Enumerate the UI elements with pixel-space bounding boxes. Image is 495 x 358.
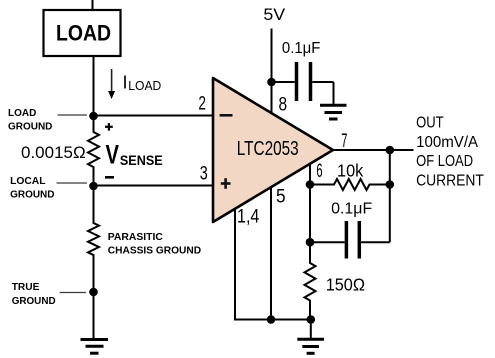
svg-text:8: 8 bbox=[279, 94, 288, 115]
svg-text:6: 6 bbox=[316, 161, 322, 182]
svg-text:V: V bbox=[106, 140, 120, 170]
svg-text:PARASITIC: PARASITIC bbox=[108, 231, 163, 243]
wire: node to op-amp pin 2 bbox=[94, 115, 214, 117]
node: feedback junction right bbox=[386, 180, 395, 189]
label TRUE GROUND bbox=[12, 281, 86, 307]
svg-text:5V: 5V bbox=[263, 5, 285, 24]
node: bypass junction bbox=[267, 78, 276, 87]
current arrow ILOAD bbox=[108, 69, 161, 99]
svg-text:CURRENT: CURRENT bbox=[416, 173, 484, 190]
svg-text:0.1μF: 0.1μF bbox=[331, 201, 372, 218]
svg-text:CHASSIS GROUND: CHASSIS GROUND bbox=[108, 244, 202, 256]
svg-text:0.1μF: 0.1μF bbox=[282, 40, 321, 57]
ground: true ground symbol bbox=[81, 292, 109, 353]
svg-text:LOAD: LOAD bbox=[128, 78, 161, 93]
svg-text:LTC2053: LTC2053 bbox=[237, 138, 299, 160]
node: pin 6 junction bbox=[306, 180, 315, 189]
svg-text:5: 5 bbox=[276, 187, 286, 208]
label LOAD GROUND bbox=[8, 107, 87, 133]
wire: left feedback vertical bbox=[309, 185, 311, 243]
ground: output network ground symbol bbox=[297, 320, 324, 354]
pin 5 wire bbox=[270, 188, 272, 320]
wire: 5V to pin 8 bbox=[271, 29, 273, 115]
svg-text:3: 3 bbox=[200, 164, 208, 185]
svg-text:I: I bbox=[123, 72, 128, 92]
capacitor C1 0.1µF (bypass) bbox=[272, 40, 334, 104]
resistor: parasitic chassis ground bbox=[88, 186, 201, 292]
node: local ground bbox=[89, 182, 98, 191]
minus sign (Vsense −) bbox=[105, 176, 114, 179]
wire: output junction down to feedback bbox=[389, 150, 391, 185]
wire: node to op-amp pin 3 bbox=[94, 185, 214, 187]
resistor RSENSE 0.0015Ω bbox=[21, 116, 99, 186]
label VSENSE bbox=[106, 140, 163, 170]
svg-text:2: 2 bbox=[198, 94, 206, 115]
svg-text:SENSE: SENSE bbox=[120, 152, 163, 168]
svg-text:LOAD: LOAD bbox=[8, 107, 37, 119]
svg-text:OF LOAD: OF LOAD bbox=[416, 153, 473, 170]
svg-text:OUT: OUT bbox=[416, 115, 444, 132]
svg-text:150Ω: 150Ω bbox=[326, 275, 365, 295]
svg-text:LOCAL: LOCAL bbox=[10, 175, 46, 187]
svg-text:10k: 10k bbox=[337, 161, 364, 181]
pin 7 wire (output) bbox=[331, 149, 414, 151]
resistor R1 10k bbox=[310, 161, 390, 191]
resistor R2 150Ω bbox=[305, 242, 366, 319]
label OUT 100mV/A OF LOAD CURRENT bbox=[416, 115, 484, 190]
LOAD box bbox=[44, 10, 121, 56]
svg-text:TRUE: TRUE bbox=[12, 281, 40, 293]
wire: load box to load ground node bbox=[93, 56, 95, 116]
node: output junction bbox=[386, 146, 395, 155]
plus sign (Vsense +) bbox=[105, 123, 113, 131]
capacitor C2 0.1µF (feedback) bbox=[310, 201, 390, 259]
pin 1,4 wire bbox=[235, 209, 311, 320]
svg-text:GROUND: GROUND bbox=[10, 188, 55, 200]
node: cap junction left bbox=[306, 238, 315, 247]
ground: bypass ground symbol bbox=[320, 105, 347, 119]
wire: right feedback vertical bbox=[389, 185, 391, 243]
wire: stub above load box bbox=[92, 0, 94, 11]
svg-text:100mV/A: 100mV/A bbox=[416, 134, 478, 151]
svg-text:1,4: 1,4 bbox=[237, 207, 260, 228]
node: true ground bbox=[89, 288, 98, 297]
node: pin 5 junction bbox=[267, 315, 276, 324]
op-amp U1 LTC2053 bbox=[213, 78, 333, 222]
pin 6 wire bbox=[309, 164, 311, 185]
svg-text:GROUND: GROUND bbox=[12, 295, 56, 307]
node: ground junction bbox=[307, 315, 316, 324]
svg-text:7: 7 bbox=[341, 131, 347, 152]
svg-text:GROUND: GROUND bbox=[8, 121, 53, 133]
svg-text:LOAD: LOAD bbox=[56, 21, 111, 46]
label LOCAL GROUND bbox=[10, 175, 87, 200]
node: load ground bbox=[89, 112, 98, 121]
svg-text:0.0015Ω: 0.0015Ω bbox=[21, 143, 86, 162]
